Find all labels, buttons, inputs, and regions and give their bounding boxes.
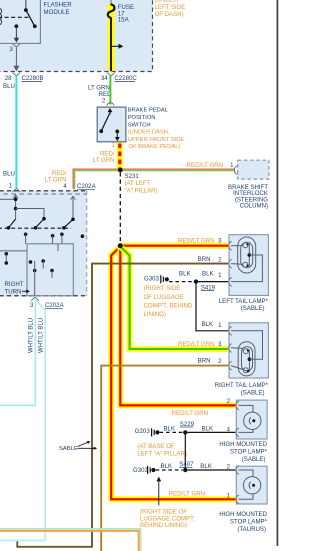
svg-text:4: 4 <box>63 183 67 190</box>
svg-text:(UNDER DASH,: (UNDER DASH, <box>128 130 170 136</box>
svg-text:BRN: BRN <box>198 256 211 263</box>
svg-text:STOP LAMP*: STOP LAMP* <box>230 449 268 456</box>
svg-text:"A" PILLAR): "A" PILLAR) <box>125 187 158 194</box>
fuse 17 feed wire (yellow with black core) <box>108 0 115 71</box>
svg-text:G303: G303 <box>133 467 149 474</box>
svg-text:1: 1 <box>9 183 13 190</box>
sable stop lamp pin arcs <box>236 401 239 437</box>
splice S231 <box>118 168 123 173</box>
flasher internal dashed link line <box>0 16 29 18</box>
SABLE note with arrows to BRN wires <box>59 441 97 452</box>
connector C2280C labels <box>88 75 137 98</box>
right tail lamp label <box>215 382 269 396</box>
wire BLK S419 to right tail pin 1 <box>196 284 228 331</box>
svg-text:(AT BASE OF: (AT BASE OF <box>137 443 175 450</box>
svg-text:HIGH MOUNTED: HIGH MOUNTED <box>219 441 267 448</box>
svg-text:RED/LT GRN: RED/LT GRN <box>178 238 214 245</box>
svg-text:FLASHER: FLASHER <box>44 2 73 9</box>
wire WHT/LT BLU #1 (to left edge) <box>0 300 35 405</box>
svg-text:2: 2 <box>102 98 106 105</box>
svg-text:SWITCH: SWITCH <box>128 122 151 128</box>
taurus stop lamp pin arcs <box>236 466 239 504</box>
svg-text:MODULE: MODULE <box>44 9 70 16</box>
svg-text:SABLE: SABLE <box>59 446 78 452</box>
connector C2280C in-line symbol <box>107 73 115 76</box>
svg-text:(SABLE): (SABLE) <box>242 456 266 463</box>
svg-text:2: 2 <box>218 358 222 365</box>
svg-text:RED/LT GRN: RED/LT GRN <box>178 341 214 348</box>
multifunction inner solid box <box>27 244 73 296</box>
svg-text:TURN: TURN <box>5 289 22 296</box>
svg-text:(SABLE): (SABLE) <box>241 389 265 396</box>
wire RED/LT GRN to right tail lamp pin 3 (right fan, green core) <box>120 247 228 350</box>
ground G203 row <box>135 425 183 436</box>
connector C2280B in-line symbol <box>13 66 21 76</box>
svg-text:OF LUGGAGE: OF LUGGAGE <box>144 294 184 301</box>
svg-text:COMP'T, BEHIND: COMP'T, BEHIND <box>144 302 194 309</box>
fuse 17 element symbol <box>108 4 115 18</box>
G303 location note <box>144 285 194 318</box>
svg-text:15A: 15A <box>118 17 130 24</box>
svg-text:BLU: BLU <box>3 170 15 177</box>
arrow from luggage note up to G303 <box>156 477 161 506</box>
svg-text:BLK: BLK <box>200 463 212 470</box>
inner box contacts <box>29 244 58 296</box>
wire BLK S229 to sable stop lamp pin 4 <box>188 431 236 433</box>
splice S229 <box>183 430 187 434</box>
svg-text:1: 1 <box>218 322 222 329</box>
svg-text:LEFT SIDE: LEFT SIDE <box>155 4 186 11</box>
svg-text:BEHIND LINING): BEHIND LINING) <box>140 522 187 529</box>
wire BLK S407 to taurus stop lamp pin 2 <box>188 469 236 471</box>
svg-text:1: 1 <box>112 142 116 149</box>
svg-text:OF BRAKE PEDAL): OF BRAKE PEDAL) <box>129 144 181 150</box>
svg-text:G303: G303 <box>144 276 160 283</box>
flasher coil (cut off at left edge) <box>0 9 2 25</box>
svg-text:G203: G203 <box>135 428 151 435</box>
right tail lamp bulb <box>231 331 263 376</box>
wire BLK S229 to S407 <box>184 435 186 470</box>
flasher module label <box>44 2 73 16</box>
svg-text:(RIGHT SIDE: (RIGHT SIDE <box>144 285 181 292</box>
wire RED/LT GRN to high mounted stop lamp taurus (left fan) <box>111 247 235 500</box>
svg-text:LEFT TAIL LAMP*: LEFT TAIL LAMP* <box>219 298 269 305</box>
svg-text:STOP LAMP*: STOP LAMP* <box>230 519 268 526</box>
svg-text:28: 28 <box>5 75 12 82</box>
svg-text:RIGHT: RIGHT <box>5 281 24 288</box>
ground G303 (left tail) row <box>144 271 193 284</box>
RED/LT GRN label at brake drop <box>93 150 115 164</box>
svg-text:WHT/LT BLU: WHT/LT BLU <box>39 318 45 353</box>
high mounted stop lamp (sable) box <box>236 400 267 439</box>
high mounted stop lamp (taurus) box <box>236 466 267 504</box>
svg-text:BLK: BLK <box>164 425 176 432</box>
taurus stop lamp bulb <box>239 470 261 499</box>
brake switch pin 2 connector arc <box>107 103 114 106</box>
flasher switch contacts <box>14 0 37 43</box>
RIGHT TURN label <box>5 281 31 295</box>
left tail lamp label <box>219 298 269 312</box>
multifunction lower contacts <box>0 233 84 265</box>
svg-text:1: 1 <box>230 162 234 169</box>
svg-text:OF DASH): OF DASH) <box>155 11 184 18</box>
fuse 17 label <box>118 4 134 24</box>
sable stop lamp label <box>219 441 267 463</box>
wire BRN from left tail lamp pin 2 <box>17 264 228 547</box>
svg-text:POSITION: POSITION <box>128 115 156 121</box>
svg-text:(TAURUS): (TAURUS) <box>237 526 266 533</box>
brake shift interlock pin 1 arc <box>234 166 237 175</box>
svg-text:BRAKE PEDAL: BRAKE PEDAL <box>128 108 169 114</box>
C202A bottom pin chevron <box>31 297 39 301</box>
wire RED/LT GRN from brake switch pin 1 to S231 (yellow w/ red dashes) <box>117 143 123 169</box>
wire LT GRN/RED from C2280C to brake pedal switch pin 2 <box>109 76 111 105</box>
wire (orange) bottom exit <box>0 531 139 551</box>
brake pedal position switch box <box>97 107 126 142</box>
flasher pin 3 connector <box>9 44 20 53</box>
multifunction internal mechanical dashed line <box>0 227 71 229</box>
C202A connector dashed boundary line <box>0 193 86 195</box>
svg-text:(AT LEFT: (AT LEFT <box>125 180 151 187</box>
svg-text:RED/LT GRN: RED/LT GRN <box>187 162 223 169</box>
wire BRN from right tail lamp pin 2 <box>101 366 228 551</box>
instrument panel area dashed box (under dash) <box>0 0 153 72</box>
svg-text:BLK: BLK <box>202 321 214 328</box>
svg-text:BLU: BLU <box>3 83 15 90</box>
svg-text:RIGHT TAIL LAMP*: RIGHT TAIL LAMP* <box>215 382 269 389</box>
luggage compartment note (taurus G303) <box>140 509 195 530</box>
right page border line <box>276 0 278 546</box>
labels at C202A pin 4 <box>45 170 97 190</box>
wire (pale green) bottom exit <box>0 529 141 551</box>
multifunction pin 1 chevron <box>13 188 21 192</box>
svg-text:1: 1 <box>218 272 222 279</box>
connector C2280B labels <box>3 75 44 90</box>
WHT/LT BLU vertical labels <box>28 318 44 353</box>
brake switch internal contacts <box>99 108 119 141</box>
svg-text:S231: S231 <box>125 173 140 180</box>
svg-text:3: 3 <box>30 302 34 309</box>
svg-text:BLK: BLK <box>179 271 191 278</box>
dashed wire from S231 to stop lamp feed junction <box>119 172 121 243</box>
svg-text:LINING): LINING) <box>144 311 166 318</box>
svg-text:HIGH MOUNTED: HIGH MOUNTED <box>219 511 267 518</box>
location note (under dash) <box>155 0 186 18</box>
svg-text:BLK: BLK <box>161 463 173 470</box>
splice S407 <box>183 468 187 472</box>
wire from flasher pin 3 to connector C2280B <box>15 48 17 71</box>
left tail lamp bulb <box>231 237 262 282</box>
multifunction switch dashed box <box>0 191 87 296</box>
stop feed junction node (top layer) <box>118 243 123 248</box>
svg-text:WHT/LT BLU: WHT/LT BLU <box>28 318 34 353</box>
wire LT BLU from C2280B down to multifunction switch pin 1 <box>15 76 17 188</box>
svg-text:LEFT "A" PILLAR): LEFT "A" PILLAR) <box>137 451 187 458</box>
brake shift interlock box <box>238 160 269 179</box>
svg-text:RED/LT GRN: RED/LT GRN <box>172 410 208 417</box>
C202A bottom connector labels <box>30 302 65 309</box>
left tail lamp box <box>229 235 268 296</box>
wire RED/LT GRN to left tail lamp pin 3 <box>120 243 228 249</box>
svg-text:BLK: BLK <box>202 271 214 278</box>
branch feed arrow from fuse wire <box>112 44 123 49</box>
C202A pin 4 chevron <box>70 191 78 195</box>
ground G303 (taurus) row <box>133 463 183 474</box>
svg-text:(SABLE): (SABLE) <box>241 305 265 312</box>
right tail lamp pin arcs <box>229 327 232 370</box>
wire RED/LT GRN horizontal pair through S231 <box>73 169 235 189</box>
sable stop lamp bulb <box>239 405 262 432</box>
svg-text:34: 34 <box>101 75 108 82</box>
wire BLK S419 to left tail pin 1 <box>198 281 228 283</box>
brake shift interlock label <box>228 184 268 210</box>
taurus stop lamp label <box>219 511 267 533</box>
flasher module U1 box <box>0 0 40 43</box>
svg-text:COLUMN): COLUMN) <box>240 203 268 210</box>
splice S419 <box>194 279 198 283</box>
svg-text:LT GRN: LT GRN <box>93 157 115 164</box>
svg-text:BRN: BRN <box>198 358 211 365</box>
svg-text:2: 2 <box>218 256 222 263</box>
brake pedal position switch label <box>128 108 185 151</box>
svg-text:RED/LT GRN: RED/LT GRN <box>169 490 205 497</box>
wire WHT/LT BLU #2 (to bottom left) <box>0 301 45 541</box>
wire RED/LT GRN to high mounted stop lamp sable (center) <box>120 247 235 406</box>
G203 location note <box>137 443 187 458</box>
svg-text:UPPER FRONT SIDE: UPPER FRONT SIDE <box>128 137 185 143</box>
svg-text:BLK: BLK <box>202 425 214 432</box>
left tail lamp pin arcs <box>229 241 232 286</box>
multifunction switch internal contacts <box>0 195 75 230</box>
right tail lamp box <box>229 323 268 378</box>
